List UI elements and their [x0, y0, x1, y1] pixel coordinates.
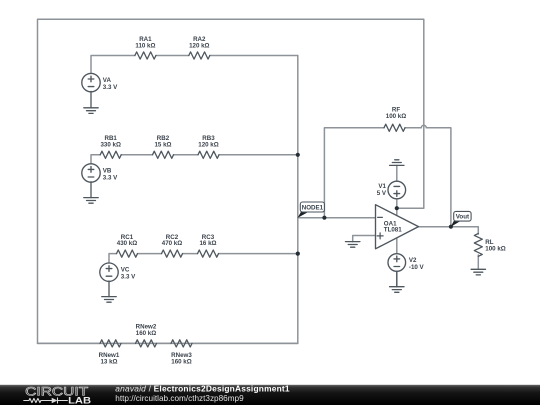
wire op-amp negative supply to V2	[396, 238, 398, 254]
svg-text:Vout: Vout	[456, 214, 469, 221]
junction at RC row / node column	[296, 252, 300, 256]
wire RNew3 to node column	[192, 342, 298, 344]
svg-text:LAB: LAB	[68, 395, 91, 405]
label RB1 330 kΩ	[100, 135, 120, 148]
node NODE1 flag	[298, 202, 325, 218]
label VB 3.3 V	[103, 167, 118, 181]
resistor RB2	[153, 151, 174, 158]
label RC3 16 kΩ	[199, 234, 216, 247]
CircuitLab logo wire glyph (resistor + diode)	[24, 398, 68, 404]
wire RB3 to node column	[219, 154, 298, 156]
junction RF right / output	[449, 225, 453, 229]
label V2 -10 V	[409, 257, 425, 271]
resistor RA1	[135, 52, 156, 59]
ground below VC	[102, 281, 116, 302]
voltage source V1 (5 V)	[388, 181, 406, 199]
label RB3 120 kΩ	[198, 135, 218, 148]
label RC2 470 kΩ	[162, 234, 182, 247]
svg-text:3.3 V: 3.3 V	[103, 174, 118, 181]
ground below V2	[390, 271, 404, 292]
svg-text:330 kΩ: 330 kΩ	[100, 142, 120, 149]
wire V1 to ground above	[396, 165, 398, 181]
label OA1 TL081	[384, 220, 402, 233]
wire RB1 to RB2	[121, 154, 152, 156]
svg-text:TL081: TL081	[384, 227, 402, 234]
wire RC1 to RC2	[138, 253, 162, 255]
wire RC2 to RC3	[183, 253, 198, 255]
wire RA1 to RA2	[156, 55, 189, 57]
ground below VB	[84, 182, 98, 203]
label VC 3.3 V	[121, 266, 136, 280]
svg-text:470 kΩ: 470 kΩ	[162, 240, 182, 247]
svg-text:http://circuitlab.com/cthzt3zp: http://circuitlab.com/cthzt3zp86mp9	[115, 394, 244, 403]
label RA2 120 kΩ	[189, 36, 209, 49]
svg-text:430 kΩ: 430 kΩ	[117, 240, 137, 247]
voltage source VC	[100, 263, 118, 281]
svg-text:120 kΩ: 120 kΩ	[189, 42, 209, 49]
svg-text:VC: VC	[121, 266, 130, 273]
wire RL to ground	[477, 255, 479, 269]
wire VB to RB1	[91, 155, 100, 164]
svg-text:120 kΩ: 120 kΩ	[198, 142, 218, 149]
svg-text:V1: V1	[378, 183, 386, 190]
ground below RL	[471, 269, 485, 275]
wire op-amp output to RL	[419, 227, 479, 234]
voltage source VB	[82, 164, 100, 182]
svg-text:anavaid / Electronics2DesignAs: anavaid / Electronics2DesignAssignment1	[115, 383, 290, 393]
resistor RF	[384, 124, 405, 131]
voltage source V2 (-10 V)	[388, 254, 406, 272]
wire VC to RC1	[109, 254, 117, 263]
wire op-amp noninverting input to ground	[353, 236, 376, 242]
svg-text:VB: VB	[103, 167, 112, 174]
svg-text:160 kΩ: 160 kΩ	[171, 359, 191, 366]
svg-text:13 kΩ: 13 kΩ	[100, 359, 117, 366]
op-amp OA1 TL081	[376, 205, 419, 249]
svg-text:100 kΩ: 100 kΩ	[386, 113, 406, 120]
wire V1 to op-amp positive supply	[396, 199, 398, 217]
wire NODE1 to op-amp inverting input	[298, 217, 376, 219]
node Vout flag	[451, 211, 471, 227]
wire RC3 to node column	[219, 253, 298, 255]
resistor RB1	[100, 151, 121, 158]
label RC1 430 kΩ	[117, 234, 137, 247]
svg-text:3.3 V: 3.3 V	[121, 273, 136, 280]
ground above V1 (inverted)	[390, 160, 404, 166]
label RNew1 13 kΩ	[99, 352, 120, 366]
resistor RC2	[162, 250, 183, 257]
resistor RC3	[198, 250, 219, 257]
label VA 3.3 V	[103, 77, 118, 91]
resistor RNew3	[171, 340, 192, 347]
ground below VA	[84, 91, 98, 113]
wire bottom row segment left	[38, 342, 101, 344]
svg-text:5 V: 5 V	[377, 190, 387, 197]
svg-text:VA: VA	[103, 77, 112, 84]
wire RF right with hop over vertical, down to Vout	[405, 125, 451, 226]
label RNew2 160 kΩ	[136, 323, 157, 336]
svg-text:15 kΩ: 15 kΩ	[154, 142, 171, 149]
svg-text:NODE1: NODE1	[302, 204, 324, 211]
voltage source VA	[82, 73, 100, 91]
svg-text:160 kΩ: 160 kΩ	[136, 330, 156, 337]
wire VA to RA1	[91, 56, 135, 74]
svg-text:16 kΩ: 16 kΩ	[199, 240, 216, 247]
junction V1 / supply / loop	[395, 206, 399, 210]
wire RA2 to node column	[210, 55, 298, 57]
resistor RNew2	[136, 340, 157, 347]
resistor RC1	[117, 250, 138, 257]
label V1 5 V	[377, 183, 387, 197]
svg-text:-10 V: -10 V	[409, 264, 425, 271]
wire RNew2 to RNew3	[157, 342, 172, 344]
ground at op-amp noninverting input	[346, 242, 360, 248]
wire V2 to ground below	[396, 271, 398, 286]
resistor RB3	[198, 151, 219, 158]
resistor RNew1	[100, 340, 121, 347]
label RL 100 kΩ	[485, 239, 505, 253]
resistor RA2	[189, 52, 210, 59]
label RA1 110 kΩ	[135, 36, 155, 49]
wire RB2 to RB3	[174, 154, 199, 156]
junction at RB row / node column	[296, 153, 300, 157]
footer bar	[0, 385, 540, 405]
junction RF left / op-amp input wire	[322, 216, 326, 220]
label RF 100 kΩ	[386, 107, 406, 120]
wire RNew1 to RNew2	[121, 342, 136, 344]
wire RF left branch	[324, 128, 384, 218]
svg-text:3.3 V: 3.3 V	[103, 84, 118, 91]
label RNew3 160 kΩ	[171, 352, 192, 366]
svg-text:110 kΩ: 110 kΩ	[135, 42, 155, 49]
wire outer loop (bottom-left-top to V1 node)	[38, 19, 424, 343]
svg-text:V2: V2	[409, 257, 417, 264]
wire node column vertical	[297, 56, 299, 344]
resistor RL (vertical)	[474, 234, 482, 257]
svg-text:100 kΩ: 100 kΩ	[485, 246, 505, 253]
label RB2 15 kΩ	[154, 135, 171, 148]
